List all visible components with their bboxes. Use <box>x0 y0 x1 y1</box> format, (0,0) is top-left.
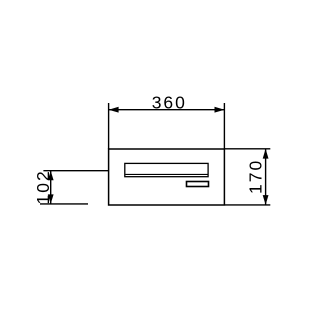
dimension line 360 <box>109 109 225 111</box>
dimension line 170 <box>265 149 267 205</box>
dimension line 102 <box>50 171 52 204</box>
cistern body outline <box>109 149 225 205</box>
extension line bottom of 102 dimension <box>40 203 88 205</box>
arrow top of 102 <box>48 171 54 181</box>
dimension text 102 <box>33 169 53 204</box>
extension line bottom of 170 dimension <box>225 204 270 206</box>
small button rectangle <box>187 182 209 187</box>
svg-text:102: 102 <box>33 169 53 204</box>
arrow left of 360 <box>109 107 119 113</box>
extension line top of 102 dimension <box>43 170 108 172</box>
extension line top of 170 dimension <box>225 148 270 150</box>
arrow bottom of 102 <box>48 194 54 204</box>
dimension text 170 <box>246 159 266 194</box>
flush plate split line <box>125 173 207 175</box>
arrow bottom of 170 <box>263 195 269 205</box>
svg-text:170: 170 <box>246 159 266 194</box>
arrow right of 360 <box>215 107 225 113</box>
svg-text:360: 360 <box>152 93 187 113</box>
extension line left of 360 dimension <box>108 103 110 149</box>
extension line right of 360 dimension <box>223 103 225 149</box>
arrow top of 170 <box>263 149 269 159</box>
dimension text 360 <box>152 93 187 113</box>
flush plate recess <box>125 163 208 176</box>
